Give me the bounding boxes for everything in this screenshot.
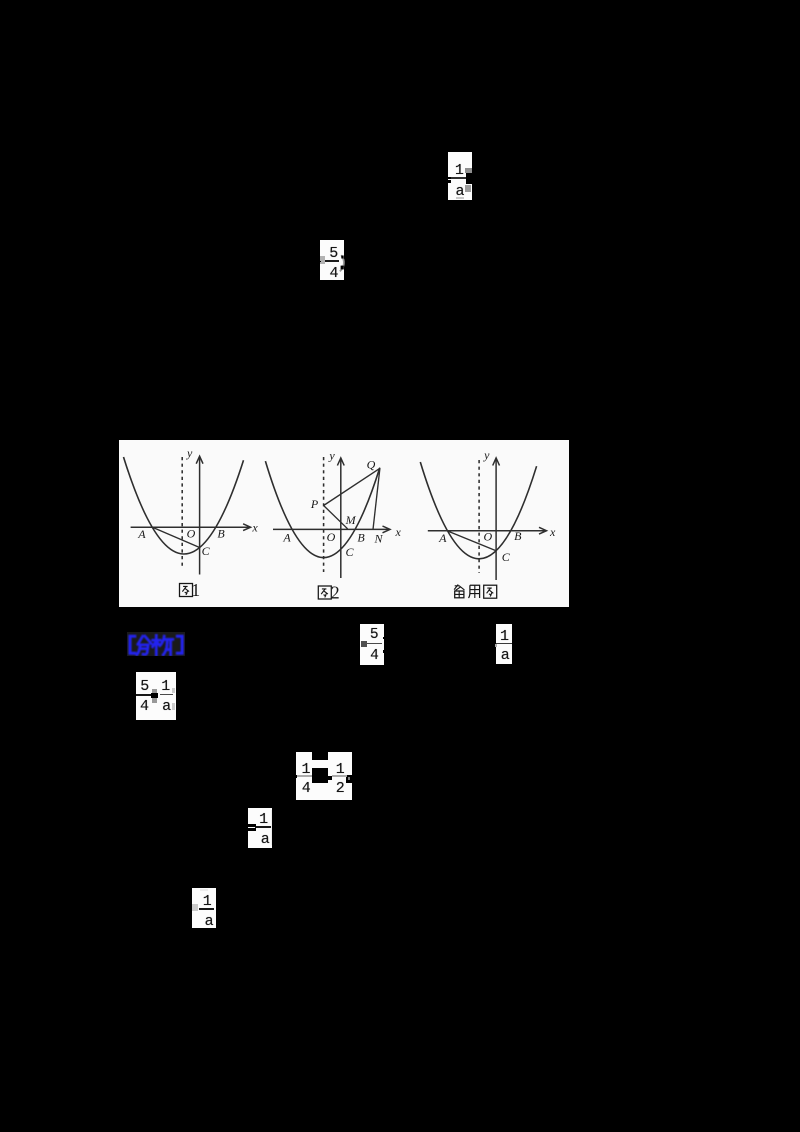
svg-text:C: C: [502, 550, 511, 564]
fraction 1/a (top): [448, 152, 472, 200]
fraction 5/4 (mid): [360, 624, 384, 665]
svg-text:y: y: [483, 448, 490, 462]
fraction 1/a (with equals): [248, 808, 273, 849]
svg-text:A: A: [137, 527, 146, 541]
svg-text:A: A: [438, 531, 447, 545]
fraction 1/a (bottom): [192, 888, 216, 929]
blue label 【分析】: [127, 632, 189, 659]
fraction 1/a (mid): [496, 624, 513, 664]
figure 1 axes+parabola: [124, 446, 259, 575]
svg-text:P: P: [310, 497, 319, 511]
fractions 1/4 and 1/2 with black blocks: [296, 752, 353, 800]
caption 备用图: [454, 585, 497, 599]
svg-text:B: B: [217, 527, 225, 541]
svg-text:x: x: [395, 525, 402, 539]
svg-text:A: A: [282, 531, 291, 545]
svg-text:y: y: [328, 449, 335, 463]
svg-text:O: O: [327, 530, 336, 544]
paren artifact right of 5/4: [338, 254, 348, 274]
svg-text:C: C: [202, 544, 211, 558]
svg-text:x: x: [251, 521, 258, 535]
svg-text:y: y: [186, 446, 193, 460]
svg-text:x: x: [549, 525, 556, 539]
svg-text:B: B: [357, 531, 365, 545]
caption 图1: [180, 580, 201, 600]
svg-text:M: M: [345, 513, 357, 527]
figure 2 axes+parabola+PQMN: [265, 449, 401, 578]
svg-text:C: C: [345, 545, 354, 559]
svg-text:N: N: [373, 532, 383, 546]
svg-text:O: O: [187, 526, 196, 540]
svg-text:O: O: [483, 530, 492, 544]
svg-text:B: B: [514, 529, 522, 543]
spare figure axes+parabola: [420, 448, 556, 580]
fraction 5/4 = 1/a: [136, 672, 176, 720]
fraction 5/4 (top): [320, 240, 344, 280]
figure: three parabola graphs: [119, 440, 569, 607]
svg-text:Q: Q: [367, 458, 376, 472]
svg-text:2: 2: [331, 583, 340, 603]
svg-text:1: 1: [191, 580, 200, 600]
caption 图2: [318, 583, 339, 603]
